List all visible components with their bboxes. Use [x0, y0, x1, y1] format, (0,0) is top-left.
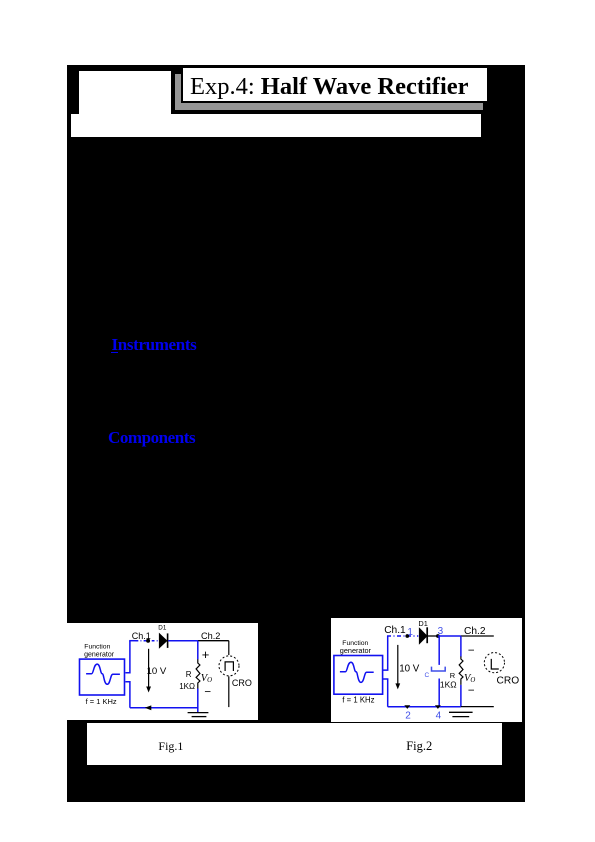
svg-text:CRO: CRO	[231, 678, 251, 688]
generator bottom terminal stub	[383, 678, 388, 706]
CRO bottom wire	[227, 676, 229, 707]
ground	[449, 711, 473, 713]
rail node3 to resistor (blue)	[438, 634, 461, 636]
heading Instruments	[112, 336, 197, 353]
fig2 white background	[331, 618, 522, 723]
svg-text:f = 1 KHz: f = 1 KHz	[343, 695, 375, 704]
top rail diode to resistor (blue)	[168, 639, 198, 641]
function generator box	[334, 655, 383, 694]
sine wave	[340, 662, 374, 682]
title box	[181, 66, 489, 103]
figure 2	[331, 618, 522, 723]
capacitor C wire top	[438, 635, 440, 664]
svg-text:D1: D1	[158, 624, 167, 631]
underline under I	[111, 352, 117, 354]
capacitor C wire bottom	[438, 678, 440, 706]
fig1 white background	[67, 623, 258, 720]
svg-text:10 V: 10 V	[146, 666, 166, 677]
white tab top-left	[79, 71, 171, 114]
title box shadow	[175, 74, 483, 110]
CRO circle	[485, 652, 505, 672]
heading Components	[108, 429, 195, 446]
function generator box	[79, 659, 124, 695]
svg-text:Ch.2: Ch.2	[201, 631, 220, 641]
resistor R1 wire top (blue)	[196, 640, 198, 659]
svg-text:generator: generator	[84, 651, 115, 658]
CRO circle	[219, 655, 239, 675]
svg-text:f = 1 KHz: f = 1 KHz	[85, 697, 116, 706]
svg-text:CRO: CRO	[497, 675, 520, 686]
node 2 dot	[405, 705, 411, 709]
svg-text:−: −	[468, 645, 475, 657]
svg-text:1: 1	[408, 626, 414, 637]
top rail dash-dot (blue)	[387, 634, 418, 636]
bottom rail (blue)	[129, 706, 197, 708]
resistor R zigzag	[459, 656, 463, 684]
svg-text:R: R	[450, 670, 456, 679]
diode D1	[420, 628, 428, 644]
svg-text:+: +	[201, 647, 209, 662]
svg-text:C: C	[425, 672, 430, 679]
figure caption band	[87, 723, 502, 765]
node Ch.1 dot	[146, 638, 150, 642]
generator bottom terminal stub	[125, 681, 129, 707]
node 4 dot	[435, 705, 441, 709]
generator top terminal stub	[125, 640, 129, 672]
resistor R1 zigzag	[196, 659, 200, 688]
svg-text:R: R	[185, 670, 191, 679]
node 1 dot	[406, 634, 410, 638]
resistor R1 wire bottom (blue)	[196, 688, 198, 712]
svg-text:1KΩ: 1KΩ	[440, 679, 457, 689]
svg-text:−: −	[204, 686, 211, 698]
current arrow on bottom rail	[144, 705, 151, 710]
svg-text:Ch.1: Ch.1	[131, 631, 150, 641]
top rail resistor to CRO (black)	[197, 639, 228, 641]
svg-text:Ch.1: Ch.1	[384, 625, 406, 636]
capacitor C cup plate	[432, 666, 446, 670]
top rail left (blue)	[129, 639, 135, 641]
bottom rail (blue)	[388, 705, 461, 707]
svg-text:Function: Function	[84, 643, 110, 650]
resistor R wire top (blue)	[460, 635, 462, 656]
CRO pulse glyph	[225, 661, 233, 670]
node 3 dot	[436, 634, 440, 638]
svg-text:1KΩ: 1KΩ	[179, 681, 195, 690]
figure 1	[67, 623, 258, 720]
svg-text:2: 2	[405, 710, 411, 721]
bottom rail right (black)	[461, 705, 494, 707]
resistor R wire bottom (blue)	[460, 684, 462, 706]
black page content block	[67, 65, 526, 802]
svg-text:generator: generator	[340, 645, 372, 654]
diode D1	[159, 633, 167, 647]
svg-text:D1: D1	[419, 619, 428, 628]
rail diode to node3 (black)	[427, 634, 438, 636]
rail resistor to right (black)	[461, 634, 494, 636]
ground	[187, 711, 208, 713]
top rail dash-dot to diode	[135, 639, 159, 641]
white band under title	[71, 114, 482, 137]
10V arrow	[147, 648, 149, 689]
svg-text:4: 4	[436, 710, 442, 721]
CRO DC glyph	[492, 658, 499, 668]
10V arrow	[397, 644, 399, 685]
svg-text:10 V: 10 V	[399, 663, 420, 674]
sine wave	[86, 664, 120, 684]
svg-text:−: −	[468, 684, 475, 696]
generator top terminal stub	[383, 635, 388, 669]
CRO drop wire	[227, 640, 229, 654]
